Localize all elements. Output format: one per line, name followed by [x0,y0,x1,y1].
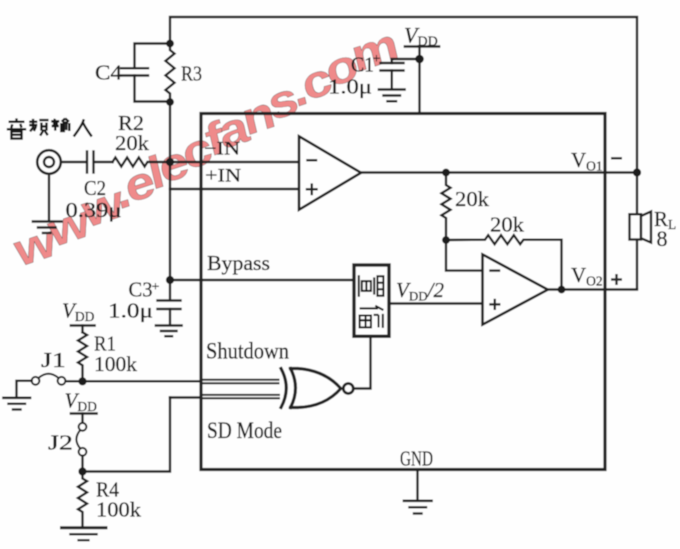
svg-text:100k: 100k [96,498,142,522]
VDD bar J1 branch [71,326,95,333]
svg-text:C4: C4 [95,61,123,85]
capacitor C4 [121,44,170,102]
wire SD mode from J2 node [83,398,171,472]
junction R3/C4 bottom node [166,98,174,106]
wire VDD/2 to op2 + [389,302,483,304]
resistor R4 [78,472,87,527]
svg-text:20k: 20k [455,187,490,211]
junction input node [166,158,174,166]
capacitor C3 [158,280,181,325]
capacitor C2 [87,152,113,173]
wire XNOR output to bias [353,336,370,388]
capacitor C1 and top VDD [381,47,440,114]
svg-text:1.0μ: 1.0μ [108,299,153,323]
svg-text:Bypass: Bypass [207,251,270,275]
VDD bar J2 branch [71,414,97,423]
jumper J1 [17,374,66,397]
junction VO1 rail node [633,168,641,176]
wire input node down to bypass node [169,162,171,280]
svg-text:0.39μ: 0.39μ [66,198,122,222]
audio input jack [37,150,85,220]
junction VO1/20k node [442,169,450,177]
wire V_O2 [548,288,637,290]
junction VDD/C1 node [415,55,424,64]
junction VO2 output node [558,286,566,294]
wire top rail from R3/C4 to right edge [170,17,637,173]
resistor 20k feedback [446,235,562,289]
XNOR gate input wires [66,380,280,398]
op-amp U1 [299,136,361,209]
label 音频输入 audio input [7,118,92,138]
op-amp U2 [483,254,548,324]
svg-text:+IN: +IN [205,166,241,187]
junction 20k feedback node [442,236,450,244]
svg-text:+: + [152,280,160,295]
svg-text:C1: C1 [351,53,374,77]
wire node to input node [169,102,171,162]
wire V_O1 [361,171,637,173]
wire right rail V_O1 to V_O2 [636,173,638,290]
svg-text:C2: C2 [84,176,106,200]
XNOR gate [281,369,353,408]
svg-text:GND: GND [400,447,433,471]
ground (J1) [4,398,31,410]
wire Bypass [170,279,354,281]
IC box [201,114,605,470]
svg-text:Shutdown: Shutdown [206,339,289,364]
svg-text:J2: J2 [48,431,73,455]
junction J1/R1 node [78,377,86,385]
label 偏置 bias (rotated) [359,275,384,328]
GND pin [416,470,418,501]
speaker RL [630,212,652,243]
svg-text:+: + [373,52,381,67]
junction J2/R4 node [78,467,86,475]
junction R3/C4 top node [166,40,174,48]
minus sign at V_O1 [611,157,622,159]
ground (audio input) [33,222,62,234]
wire -IN [170,161,299,163]
junction bypass node [166,276,174,284]
jumper J2 [76,423,86,472]
resistor 20k vertical [442,173,451,241]
svg-text:SD Mode: SD Mode [207,418,282,443]
svg-text:J1: J1 [41,348,66,372]
resistor R1 [78,332,87,381]
wire op2 inverting input [446,240,483,271]
svg-text:8: 8 [657,226,668,251]
svg-text:20k: 20k [115,131,150,155]
ground (GND pin) [404,501,432,514]
ground (C3) [156,326,182,337]
svg-text:1.0μ: 1.0μ [328,75,372,99]
wire +IN [170,188,299,190]
ground (C1) [379,90,405,102]
svg-text:20k: 20k [490,213,525,237]
resistor R3 [166,44,175,103]
svg-text:100k: 100k [94,352,138,376]
watermark www.elecfans.com [0,9,416,286]
resistor R2 [113,158,171,167]
bias block 偏置 [354,265,389,336]
svg-text:R3: R3 [181,62,202,86]
ground (R4) [62,528,107,540]
plus sign at V_O2 [611,274,622,285]
svg-text:−IN: −IN [204,139,240,160]
